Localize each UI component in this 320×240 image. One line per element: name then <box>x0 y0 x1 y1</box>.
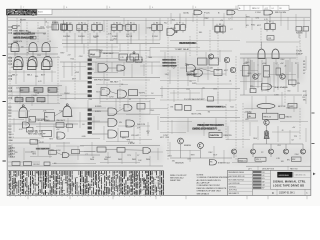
wire <box>8 123 78 125</box>
IC U31 <box>198 58 208 65</box>
gate U53 <box>23 122 30 128</box>
gate U2A <box>14 57 23 67</box>
IC U34 <box>214 70 222 76</box>
resistor R95 <box>44 162 50 165</box>
svg-text:1. UNLESS OTHERWISE SPECIFIED: 1. UNLESS OTHERWISE SPECIFIED <box>197 177 229 179</box>
wire <box>145 36 147 100</box>
svg-text:SIGNAL MANUAL CTRL: SIGNAL MANUAL CTRL <box>273 179 306 183</box>
transistor Q43 <box>284 149 289 154</box>
IC U70 <box>175 105 182 111</box>
border frame <box>7 9 311 195</box>
wire <box>8 165 163 167</box>
paper tone <box>7 9 311 195</box>
gate U58 <box>63 153 70 158</box>
read amp block <box>89 50 100 57</box>
wire <box>81 33 83 44</box>
wire <box>266 109 268 114</box>
svg-text:T START DELAY: T START DELAY <box>175 48 190 51</box>
IC U76 <box>24 162 32 166</box>
wire <box>253 143 303 145</box>
wire <box>167 104 169 160</box>
IC U75 <box>12 162 20 166</box>
label TAPE <box>186 74 196 76</box>
svg-text:10 REV: 10 REV <box>78 36 85 38</box>
wire <box>247 58 249 66</box>
wire <box>47 22 49 42</box>
relay K21 <box>264 66 270 78</box>
svg-text:REV C-2: REV C-2 <box>252 8 260 10</box>
svg-text:2W: 2W <box>297 83 300 85</box>
wire <box>298 31 300 38</box>
label band3 <box>197 124 222 126</box>
wire <box>66 33 68 44</box>
wire <box>62 43 160 45</box>
svg-text:B WRITE CLK: B WRITE CLK <box>218 162 231 164</box>
wire <box>196 16 198 56</box>
resistor R101 <box>13 26 18 29</box>
label column <box>303 61 305 75</box>
svg-text:ALL CAP IN UF: ALL CAP IN UF <box>197 182 211 185</box>
IC U66 <box>121 132 129 138</box>
wire <box>106 149 117 151</box>
gate U60 <box>108 108 117 116</box>
wire <box>57 153 63 156</box>
resistor R102 <box>30 36 36 39</box>
wire <box>17 32 46 34</box>
svg-text:CAUTION: CAUTION <box>210 134 219 137</box>
scan noise <box>0 0 1 1</box>
IC U71 <box>185 106 192 111</box>
IC U17 <box>303 27 309 32</box>
relay K20 <box>243 66 250 77</box>
gate U15 <box>272 49 279 59</box>
svg-text:OPERATION OF UNIT ONLY: OPERATION OF UNIT ONLY <box>197 190 222 193</box>
transistor Q40 <box>232 149 237 154</box>
transistor Q21 <box>198 143 204 149</box>
svg-text:READ AMP: READ AMP <box>103 52 114 55</box>
wire <box>25 151 36 153</box>
wire <box>108 67 117 69</box>
gate U63 <box>108 119 117 127</box>
wire <box>8 95 62 97</box>
signal name table <box>8 170 164 195</box>
resistor bank R5 <box>15 98 45 102</box>
resistor R62 <box>289 80 297 85</box>
gate U50 <box>19 107 28 118</box>
svg-text:REMOVE JUMPER FOR REMOTE: REMOVE JUMPER FOR REMOTE <box>197 188 227 190</box>
wire <box>299 108 301 140</box>
svg-text:102547-01 SH 1: 102547-01 SH 1 <box>279 193 295 195</box>
svg-text:1/2W: 1/2W <box>75 72 79 74</box>
wire <box>287 60 289 80</box>
svg-text:SEL RDY: SEL RDY <box>110 81 119 83</box>
scan density overlay <box>8 22 310 167</box>
svg-text:6-1: 6-1 <box>272 8 274 10</box>
gate U3B <box>28 60 37 70</box>
wire <box>260 28 262 48</box>
wire <box>179 13 181 22</box>
svg-text:READ ENABLE: READ ENABLE <box>274 86 288 89</box>
flip-flop K5 <box>127 22 129 24</box>
wire <box>106 20 108 100</box>
wire <box>74 56 76 100</box>
gate U27 <box>118 90 127 98</box>
resistor R51 <box>67 124 73 128</box>
gate U2C <box>43 57 52 67</box>
gate U72 <box>210 160 217 166</box>
svg-text:1/2W: 1/2W <box>274 95 278 97</box>
transistor Q9 <box>208 54 213 59</box>
IC U57 <box>49 151 57 155</box>
diode bank CR3 <box>20 88 57 93</box>
wire <box>80 151 96 153</box>
IC U21 <box>130 54 139 60</box>
label WRITE PROTECT <box>13 33 32 35</box>
label band4 <box>192 128 215 130</box>
wire <box>57 56 59 103</box>
connector J3 pins <box>88 109 92 134</box>
power box <box>288 103 297 108</box>
IC U80 <box>280 114 285 118</box>
flip-flop K2 <box>78 22 80 24</box>
IC U25 <box>135 57 142 62</box>
wire <box>233 154 235 158</box>
wire <box>92 133 108 135</box>
svg-text:2. INDICATES TEST POINT: 2. INDICATES TEST POINT <box>197 184 221 187</box>
wire <box>125 149 143 151</box>
svg-text:EMERG: EMERG <box>184 145 191 147</box>
wire <box>110 92 118 95</box>
zone arrow <box>313 173 316 176</box>
wire <box>177 56 179 100</box>
svg-text:CLK A: CLK A <box>183 11 189 14</box>
IC U68 <box>117 148 125 153</box>
gate U22 <box>98 64 108 73</box>
gate U69 <box>143 148 151 154</box>
svg-text:1/2W: 1/2W <box>163 135 167 137</box>
IC U16 <box>296 27 302 32</box>
wire <box>284 88 286 103</box>
wire <box>55 111 64 116</box>
wire <box>267 77 269 92</box>
svg-text:FWD: FWD <box>150 110 155 112</box>
IC U24 <box>127 57 134 62</box>
wire <box>266 125 268 130</box>
wire mesh vertical <box>12 9 306 166</box>
wire <box>60 61 160 63</box>
wire <box>8 53 58 55</box>
connector J1 pins <box>8 26 12 99</box>
svg-text:JW: JW <box>279 8 282 10</box>
erase head coil T1 <box>52 24 59 30</box>
flip-flop K8 <box>216 24 218 26</box>
resistor R61 <box>250 89 256 93</box>
transistor Q12 <box>253 74 258 79</box>
gate U56 <box>57 132 65 139</box>
wire mesh horizontal <box>8 21 310 164</box>
wire <box>209 30 211 52</box>
wire <box>252 144 254 149</box>
wire <box>200 149 202 159</box>
label stack <box>9 134 15 142</box>
gate U26 <box>101 88 110 96</box>
gate U1C <box>42 43 50 52</box>
wire <box>8 16 310 18</box>
wire <box>92 110 108 112</box>
connector J2 pins <box>88 59 92 98</box>
svg-text:SEE DETAIL B: SEE DETAIL B <box>197 192 210 195</box>
connector pins2 <box>8 146 12 155</box>
flip-flop K3 <box>93 22 95 24</box>
svg-text:PART NO: PART NO <box>290 167 298 170</box>
wire <box>130 33 132 44</box>
svg-text:LAST USED R99 C44: LAST USED R99 C44 <box>229 175 245 178</box>
gate U30 <box>187 65 196 73</box>
wire <box>37 22 39 42</box>
wire <box>217 32 219 100</box>
gate U13 <box>167 29 175 36</box>
regulator box <box>263 113 279 119</box>
wire <box>26 22 28 66</box>
gate U23 <box>117 65 125 71</box>
svg-text:FWD: FWD <box>192 83 197 85</box>
delay line DL1 <box>29 117 36 123</box>
transistor Q41 <box>251 149 256 154</box>
wire <box>170 157 232 159</box>
svg-text:GND BUS: GND BUS <box>175 163 184 165</box>
svg-text:C31: C31 <box>268 38 271 40</box>
wire <box>46 26 52 28</box>
IC U67 <box>97 147 106 152</box>
gate U2B <box>28 57 37 67</box>
svg-text:REFERENCE DESIG: REFERENCE DESIG <box>229 172 245 174</box>
wire <box>189 36 191 56</box>
wire <box>261 42 263 50</box>
caution box <box>209 133 222 138</box>
resistor R60 <box>276 68 281 75</box>
svg-text:R15: R15 <box>250 86 253 88</box>
svg-text:W CLK: W CLK <box>126 36 133 38</box>
svg-text:ALL RES IN OHMS 1/4W 5%: ALL RES IN OHMS 1/4W 5% <box>197 179 222 182</box>
svg-text:C20 .047: C20 .047 <box>131 135 140 137</box>
gate U51 <box>63 106 72 116</box>
wire <box>242 103 244 148</box>
wire <box>265 58 267 66</box>
wire <box>32 52 34 57</box>
resistor R90 <box>238 159 247 163</box>
flip-flop K1 <box>63 22 65 24</box>
IC U28 <box>129 90 138 96</box>
resistor R92 <box>292 157 302 161</box>
svg-text:SEE SHEET 2: SEE SHEET 2 <box>229 193 239 195</box>
svg-text:RWD: RWD <box>9 140 14 142</box>
svg-text:LOGIC TAPE DRIVE BD: LOGIC TAPE DRIVE BD <box>273 185 304 188</box>
wire <box>235 56 237 100</box>
resistor network <box>215 27 223 33</box>
gate U40 <box>262 84 272 91</box>
svg-text:WR CLK EN: WR CLK EN <box>275 12 286 14</box>
stamp underline <box>37 16 120 18</box>
gate U1B <box>29 43 37 52</box>
wire <box>160 117 240 119</box>
resistor R77 <box>208 97 214 101</box>
IC U20 <box>119 54 128 60</box>
resistor R91 <box>255 157 266 161</box>
motor M1 <box>257 103 275 108</box>
wire <box>16 18 18 68</box>
wire <box>14 52 16 57</box>
wire <box>225 104 227 140</box>
transistor Q20 <box>178 138 184 144</box>
wire <box>100 52 119 54</box>
wire <box>117 108 124 112</box>
gate U1A <box>11 43 19 52</box>
svg-text:D: D <box>272 191 274 195</box>
transistor Q31 with heatsink <box>264 132 269 139</box>
wire <box>60 98 155 100</box>
gate U14 <box>258 49 265 59</box>
flip-flop K6 <box>153 22 155 24</box>
svg-text:OAKLAND CA: OAKLAND CA <box>295 174 307 177</box>
svg-text:SHEET REF: SHEET REF <box>170 180 181 182</box>
zone ticks <box>3 6 315 200</box>
capacitor C31 <box>267 36 274 40</box>
label stack <box>162 59 178 68</box>
svg-text:DESCRIPTION: DESCRIPTION <box>262 168 275 170</box>
wire <box>8 142 70 144</box>
IC U55 <box>42 131 52 137</box>
wire <box>45 52 47 57</box>
IC U55C <box>30 140 38 145</box>
wire <box>269 14 271 21</box>
wire <box>160 88 240 90</box>
wire <box>80 145 160 147</box>
table footer ticks <box>10 196 161 197</box>
wire <box>199 68 214 72</box>
wire <box>9 56 11 150</box>
svg-text:WRITE POWER CLK: WRITE POWER CLK <box>207 106 227 108</box>
svg-text:P CLK: P CLK <box>204 12 210 14</box>
svg-text:R40 2.2K: R40 2.2K <box>137 124 146 126</box>
IC U59 <box>72 150 80 154</box>
svg-text:GND: GND <box>82 136 87 138</box>
gate U11 <box>227 10 235 15</box>
wire <box>251 60 253 88</box>
transistor Q30 <box>264 120 269 125</box>
svg-text:MOT CTRL: MOT CTRL <box>192 114 203 116</box>
wire <box>8 85 62 87</box>
wire <box>119 80 121 110</box>
write head coil T2 <box>61 24 68 30</box>
transistor Q10 <box>224 57 229 62</box>
wire <box>251 60 299 92</box>
wire <box>296 46 298 60</box>
notes block <box>170 174 229 195</box>
wire <box>87 20 89 56</box>
read logic block U52 <box>45 113 55 122</box>
wire <box>127 20 129 54</box>
IC U32 <box>209 58 219 65</box>
wire <box>180 144 182 158</box>
flip-flop K7 <box>176 22 178 24</box>
connector pins <box>8 107 12 132</box>
gate U64 <box>126 120 135 127</box>
gate U3C <box>42 60 51 70</box>
svg-text:GENERAL: GENERAL <box>278 174 290 177</box>
flip-flop K4 <box>113 22 115 24</box>
gate U10 <box>194 10 202 15</box>
wire <box>116 33 118 44</box>
IC U54 <box>27 128 34 133</box>
wire <box>96 33 98 44</box>
gate U61 <box>124 105 132 112</box>
stamp side box <box>37 9 52 14</box>
fuse box F2 <box>248 114 256 118</box>
wire <box>243 58 245 95</box>
label WRITE POWER <box>206 106 223 108</box>
revision strip <box>238 5 289 10</box>
transistor Q13 <box>280 74 285 79</box>
svg-text:FWD: FWD <box>251 25 256 27</box>
transistor Q42 <box>269 149 274 154</box>
label READ DATA <box>179 42 195 44</box>
wire <box>299 32 301 56</box>
label OSC <box>36 148 50 150</box>
svg-text:MF: MF <box>262 181 264 183</box>
wire <box>240 53 300 55</box>
gate U65 <box>108 130 117 138</box>
IC U62 <box>137 104 145 110</box>
IC U55B <box>56 123 64 128</box>
gate U33 <box>194 70 203 77</box>
flip-flop K9 <box>266 21 268 23</box>
transistor Q44 <box>301 149 306 154</box>
reference labels <box>11 16 307 165</box>
wire <box>92 121 108 123</box>
wire <box>139 110 141 144</box>
wire <box>240 57 296 59</box>
svg-text:C CLK: C CLK <box>255 12 261 14</box>
label WRITE ENABLE <box>13 37 32 39</box>
wire <box>167 18 169 100</box>
svg-text:C9 22: C9 22 <box>39 142 44 144</box>
wire <box>69 154 100 156</box>
gate U12 <box>264 10 273 15</box>
approval stamp <box>6 9 36 15</box>
title block <box>228 166 312 195</box>
wire <box>235 104 237 160</box>
wire <box>92 77 160 79</box>
label stack2 <box>9 147 16 159</box>
wire <box>240 94 302 96</box>
svg-text:READ DATA REC: READ DATA REC <box>180 42 197 45</box>
svg-text:WR PROT 2N404: WR PROT 2N404 <box>94 79 110 81</box>
wire <box>266 139 268 144</box>
wire <box>36 118 45 120</box>
gate U3A <box>14 60 23 70</box>
svg-text:NOTES:: NOTES: <box>197 174 205 176</box>
transistor Q11 <box>230 67 235 72</box>
